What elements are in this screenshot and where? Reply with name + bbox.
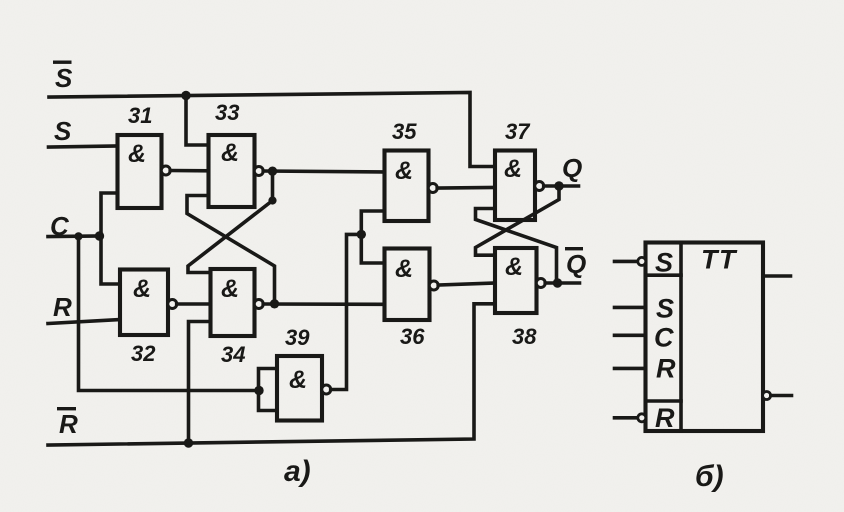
wire C input — [48, 234, 101, 238]
pin Q-bar output with inversion bubble — [763, 392, 771, 400]
wire C to inverter 39 — [79, 236, 259, 390]
svg-text:R: R — [59, 409, 78, 439]
junction tied-input bracket — [357, 230, 366, 239]
svg-text:&: & — [395, 255, 413, 283]
svg-text:R: R — [656, 354, 676, 384]
net S-bar label — [53, 61, 73, 94]
gate 38 — [495, 248, 545, 313]
wire cross latch: 33 output to 34 upper input — [188, 171, 273, 272]
svg-text:&: & — [289, 366, 307, 394]
svg-text:Q: Q — [562, 153, 582, 183]
wire S input — [49, 146, 118, 147]
svg-text:33: 33 — [215, 100, 239, 125]
wire Q-bar output line — [545, 281, 579, 285]
wire gate 32 output to gate 34 — [177, 302, 211, 306]
svg-text:S: S — [55, 63, 73, 93]
pin C — [615, 333, 646, 337]
svg-text:&: & — [133, 275, 151, 303]
flip-flop control column divider — [679, 243, 683, 432]
svg-text:&: & — [128, 140, 146, 168]
gate 36 — [385, 249, 439, 321]
wire S-bar drop to gate 33 — [186, 96, 209, 146]
wire clock riser to gate 31 — [101, 193, 118, 236]
junction gate 34 output — [270, 299, 279, 308]
svg-text:T: T — [719, 245, 738, 275]
junction on Q-bar line — [553, 278, 562, 287]
wire tied inputs of gates 35 and 36 — [361, 211, 384, 263]
wire gate 31 output to gate 33 — [170, 169, 208, 173]
junction at inverter 39 input — [254, 386, 263, 395]
wire gate 34 output to gate 36 — [263, 302, 384, 306]
pin R-bar with inversion bubble — [615, 416, 638, 420]
wire cross latch: 37 output to 38 upper input — [476, 186, 560, 255]
gate 33 — [209, 135, 264, 207]
svg-text:&: & — [504, 155, 522, 183]
svg-text:34: 34 — [221, 342, 245, 367]
wire R-bar riser to gate 34 — [189, 322, 211, 444]
wire Q output line — [544, 184, 579, 188]
pin S-bar with inversion bubble — [615, 260, 638, 264]
svg-text:T: T — [701, 245, 720, 275]
svg-text:&: & — [395, 157, 413, 185]
gate 39 — [277, 356, 331, 421]
svg-text:б): б) — [695, 460, 724, 493]
wire gate 36 output to gate 38 — [438, 283, 495, 285]
net Q-bar label — [565, 247, 586, 279]
junction at diagonal bend — [268, 196, 276, 204]
wire gate 33 output to gate 35 — [263, 171, 384, 172]
svg-text:S: S — [54, 116, 72, 146]
wire cross latch: 34 output to 33 lower input — [187, 196, 275, 304]
junction on R-bar bus — [184, 438, 193, 447]
svg-text:35: 35 — [392, 119, 417, 144]
svg-text:S: S — [655, 248, 673, 278]
junction on S-bar bus — [181, 91, 190, 100]
junction C at clock riser — [95, 231, 104, 240]
svg-text:32: 32 — [131, 341, 156, 366]
junction gate 33 output — [268, 167, 277, 176]
label TT — [701, 245, 738, 275]
gate 37 — [495, 151, 544, 221]
svg-text:&: & — [221, 275, 239, 303]
svg-text:R: R — [655, 403, 675, 433]
divider under S-bar cell — [646, 273, 682, 277]
wire inverter 39 input bracket — [259, 369, 278, 411]
wire S-bar bus — [49, 93, 495, 167]
wire R-bar bus — [48, 304, 495, 445]
wire cross latch: 38 output to 37 lower input — [476, 209, 557, 284]
svg-text:37: 37 — [505, 119, 531, 144]
flip-flop symbol body TT — [646, 243, 764, 432]
svg-text:&: & — [505, 253, 523, 281]
wire R input — [48, 320, 120, 324]
svg-text:R: R — [53, 292, 72, 322]
svg-text:39: 39 — [285, 325, 310, 350]
divider above R-bar cell — [646, 399, 682, 403]
gate 34 — [211, 269, 264, 336]
junction C at inverter branch — [74, 232, 82, 240]
net R-bar label — [57, 407, 78, 439]
wire clock drop to gate 32 — [101, 236, 120, 284]
pin Q output — [763, 274, 791, 278]
gate 35 — [385, 151, 438, 222]
pin S — [615, 306, 646, 310]
svg-text:Q: Q — [566, 249, 586, 279]
gate 31 — [118, 135, 171, 208]
svg-text:a): a) — [284, 455, 311, 488]
pin R — [615, 367, 646, 371]
gate 32 — [120, 270, 177, 336]
svg-text:38: 38 — [512, 324, 537, 349]
wire gate 35 output to gate 37 — [437, 186, 495, 190]
svg-text:C: C — [654, 323, 674, 353]
svg-text:31: 31 — [128, 103, 152, 128]
junction on Q line — [554, 181, 563, 190]
svg-text:&: & — [221, 139, 239, 167]
svg-text:S: S — [656, 294, 674, 324]
wire gate 39 output up to tied inputs — [331, 234, 362, 389]
svg-text:36: 36 — [400, 324, 425, 349]
